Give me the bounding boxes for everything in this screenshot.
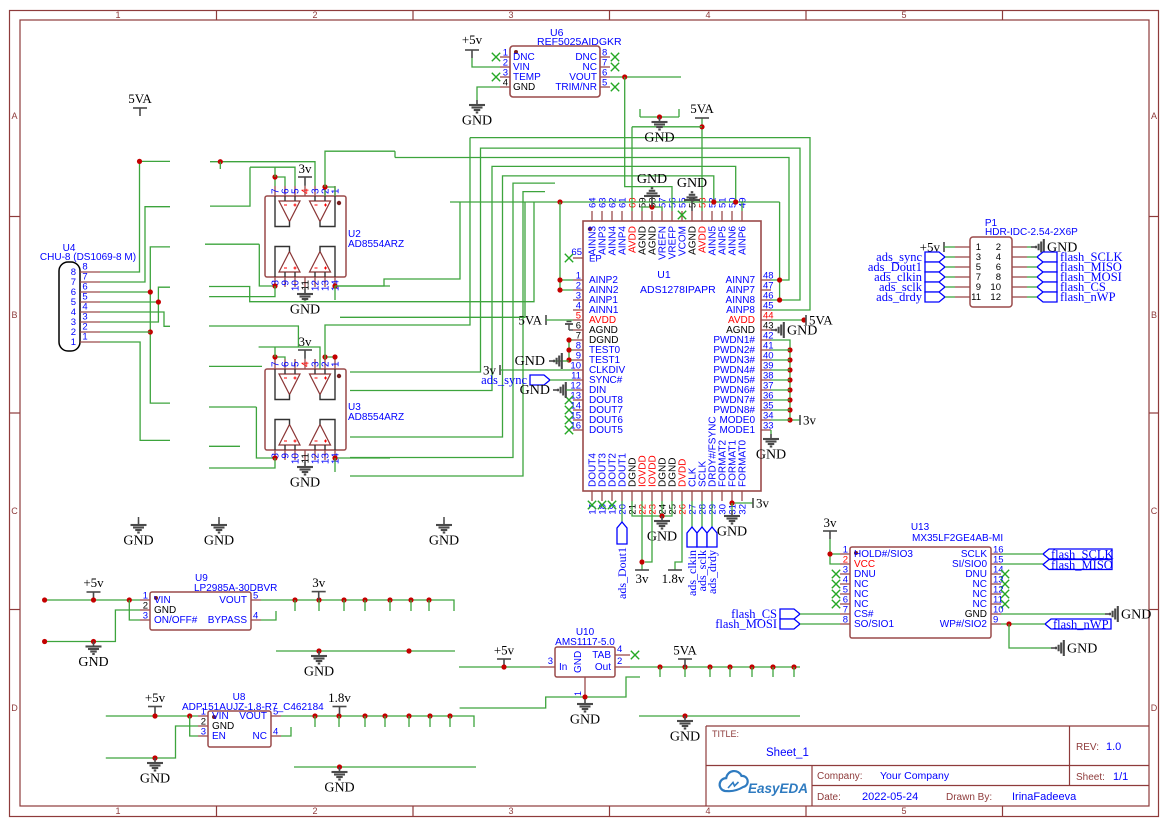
wire bundle line2 to pin46 xyxy=(350,148,800,372)
svg-text:1: 1 xyxy=(331,188,342,194)
svg-text:8: 8 xyxy=(843,615,848,626)
U2 pin 7 (top) xyxy=(274,186,276,196)
U1 pin 4 AINN1 (left) xyxy=(573,309,583,311)
U1 pin 21 DGND (bottom) xyxy=(631,491,633,501)
U1 pin 7 DGND (left) xyxy=(573,339,583,341)
junction dot 3v at U13 pin1 xyxy=(827,551,832,556)
wire segment y167 to U2 pin5 xyxy=(250,167,295,186)
svg-text:3: 3 xyxy=(201,727,206,738)
svg-text:5VA: 5VA xyxy=(518,313,542,328)
wire leg y202 to pin 49 xyxy=(741,202,743,211)
wire staircase riser x150 xyxy=(150,247,170,403)
wire flash_MISO to P1 xyxy=(1027,266,1037,268)
svg-text:1: 1 xyxy=(115,806,120,816)
wire U2 pin8 down xyxy=(209,286,275,297)
U13 pin 10 GND (right) xyxy=(991,613,1001,615)
svg-text:VOUT: VOUT xyxy=(239,711,267,722)
ground symbol left area 1 xyxy=(138,517,140,520)
junction dot pin1 riser top xyxy=(557,199,562,204)
net flag flash_MISO at U13 xyxy=(1043,560,1112,570)
U13 pin 12 NC (right) xyxy=(991,593,1001,595)
junction dot gnd rail at symbol xyxy=(91,639,96,644)
svg-text:5: 5 xyxy=(901,806,906,816)
U3 pin 14 (bottom) xyxy=(334,450,336,460)
svg-text:GND: GND xyxy=(290,303,320,318)
svg-text:GND: GND xyxy=(513,82,535,93)
wire U10 Out 5VA rail xyxy=(630,666,800,668)
junction dot y161 segment xyxy=(218,159,223,164)
wire flash_SCLK to P1 xyxy=(1027,256,1037,258)
wire U3 pin8 down xyxy=(209,458,275,468)
U1 pin 2 AINN2 (left) xyxy=(573,289,583,291)
svg-text:33: 33 xyxy=(763,421,774,432)
U2 pin 5 (top) xyxy=(294,186,296,196)
U2 pin1 marker dot xyxy=(337,201,341,205)
U9 pin 1 VIN (left) xyxy=(140,599,150,601)
U2 pin 11 ground xyxy=(304,287,306,289)
svg-text:1: 1 xyxy=(82,332,87,343)
U4 pin 1 xyxy=(80,341,100,343)
3v rail tap stubs and junction dots xyxy=(292,597,297,602)
junction dot U2 pin14 xyxy=(332,283,337,288)
wire U8 VOUT 1.8v rail xyxy=(281,716,474,727)
U1 pin 58 AGND (top) xyxy=(651,211,653,221)
U2 pin 3 (top) xyxy=(314,186,316,196)
net flag flash_CS at U13 xyxy=(780,609,800,619)
svg-text:B: B xyxy=(1151,310,1157,320)
svg-text:EN: EN xyxy=(212,731,226,742)
junction dot U3 pin2 xyxy=(322,354,327,359)
wire U1 MODE1 pin33 to ground xyxy=(770,430,772,434)
svg-text:EasyEDA: EasyEDA xyxy=(748,781,808,796)
U6 pin 4 GND (left) xyxy=(500,86,510,88)
svg-text:5: 5 xyxy=(273,707,278,718)
junction dot IOVDD 3v xyxy=(639,559,644,564)
U9 pin 5 VOUT (right) xyxy=(251,599,261,601)
svg-text:5: 5 xyxy=(253,591,258,602)
junction dot pin5 to riser xyxy=(156,299,161,304)
wire vertical link pins 48-46 xyxy=(779,202,781,300)
wire 3v to U13 pins 1 and 2 xyxy=(830,539,840,564)
svg-text:Sheet:: Sheet: xyxy=(1076,772,1105,783)
U1 pin 55 VCOM (top) xyxy=(681,211,683,221)
U1 pin 28 SCLK (bottom) xyxy=(701,491,703,501)
ground symbol left area 2 xyxy=(218,517,220,520)
svg-text:Company:: Company: xyxy=(817,771,863,782)
U1 pin 43 AGND (right) xyxy=(761,329,771,331)
svg-text:U1: U1 xyxy=(657,269,671,281)
U3 op-amp triangle xyxy=(279,374,300,395)
junction dot U8 gnd rail at symbol xyxy=(152,755,157,760)
wire U2 pin2 riser to top xyxy=(325,151,395,187)
junction dot top gnd net xyxy=(657,114,662,119)
U1 pin 1 AINP2 (left) xyxy=(573,279,583,281)
svg-text:WP#/SIO2: WP#/SIO2 xyxy=(940,619,988,630)
wire U2 pin8 net xyxy=(259,244,275,287)
ground symbol on mid GND rail xyxy=(318,651,320,656)
U4 pin 5 xyxy=(80,301,100,303)
U2 pin 8 (bottom) xyxy=(274,277,276,287)
U1 pin 44 AVDD (right) xyxy=(761,319,771,321)
svg-text:MX35LF2GE4AB-MI: MX35LF2GE4AB-MI xyxy=(912,533,1003,544)
wire flash_nWP to P1 xyxy=(1027,296,1037,298)
U1 pin 52 AINN5 (top) xyxy=(711,211,713,221)
net flag ads_sync at P1 xyxy=(925,252,945,262)
U8 pin 4 NC (right) xyxy=(271,735,281,737)
U1 pin 40 PWDN3# (right) xyxy=(761,359,771,361)
svg-text:3: 3 xyxy=(143,611,148,622)
U2 pin 9 (bottom) xyxy=(284,277,286,287)
junction dot 5VA wire xyxy=(699,124,704,129)
svg-text:B: B xyxy=(11,310,17,320)
ground symbol top gnd net xyxy=(659,117,661,122)
U2 power pin 3v symbol xyxy=(298,176,312,178)
svg-text:IrinaFadeeva: IrinaFadeeva xyxy=(1012,791,1077,803)
U1 pin 19 DOUT2 (bottom) xyxy=(611,491,613,501)
svg-text:GND: GND xyxy=(290,476,320,491)
svg-text:ads_drdy: ads_drdy xyxy=(876,290,923,304)
U13 pin 1 HOLD#/SIO3 (left) xyxy=(840,553,850,555)
U1 pin 41 PWDN2# (right) xyxy=(761,349,771,351)
junction dot U3 pin14 xyxy=(332,455,337,460)
svg-text:GND: GND xyxy=(1121,608,1151,623)
wire U4 pin5 staircase xyxy=(100,301,158,303)
net flag ads_drdy at P1 xyxy=(925,292,945,302)
svg-text:AD8554ARZ: AD8554ARZ xyxy=(348,412,404,423)
U1 pin1 marker dot xyxy=(588,227,592,231)
wire +5v to P1 pin1 xyxy=(944,246,955,248)
U1 pin 37 PWDN6# (right) xyxy=(761,389,771,391)
U4 pin 4 xyxy=(80,311,100,313)
U13 pin 16 SCLK (right) xyxy=(991,553,1001,555)
U13 pin 6 NC (left) xyxy=(840,603,850,605)
U6 pin 6 VOUT (right) xyxy=(600,76,610,78)
svg-text:3v: 3v xyxy=(312,575,326,590)
svg-text:GND: GND xyxy=(324,781,354,796)
U13 pin 2 VCC (left) xyxy=(840,563,850,565)
ground symbol below pin 33 xyxy=(770,434,772,439)
connector P1 body xyxy=(970,237,1012,307)
U6 pin 5 TRIM/NR (right) xyxy=(600,86,610,88)
svg-text:5VA: 5VA xyxy=(128,91,152,106)
wire U8 GND pin to ground rail xyxy=(106,726,198,758)
U3 pin 11 ground xyxy=(304,460,306,462)
wire pin31 down to ground xyxy=(731,503,733,511)
wire segment y161 to U2 pin3 xyxy=(210,162,315,186)
U1 pin 56 VREFP (top) xyxy=(671,211,673,221)
wire +5v rail to U8 VIN xyxy=(106,715,198,717)
power flag 3v sideways at pin 32 xyxy=(752,498,754,508)
net flag flash_SCLK at P1 xyxy=(1037,252,1057,262)
ground symbol below U9 gnd rail xyxy=(93,642,95,647)
U3 power pin 3v symbol xyxy=(298,349,312,351)
wire U4 pin8 staircase xyxy=(100,161,170,272)
U3 pin 4 (top) xyxy=(304,359,306,369)
U1 pin 27 CLK (bottom) xyxy=(691,491,693,501)
wire U8 EN to +5v rail xyxy=(190,716,198,736)
U13 pin 14 DNU (right) xyxy=(991,573,1001,575)
svg-text:GND: GND xyxy=(204,534,234,549)
U4 pin 6 xyxy=(80,291,100,293)
ground symbol left area 3 xyxy=(443,517,445,520)
wire U3 pin2 riser to line1 xyxy=(325,138,470,359)
title block outline xyxy=(706,725,1149,727)
wire +5v to U10 In xyxy=(459,666,540,668)
net flag flash_CS at P1 xyxy=(1037,282,1057,292)
svg-text:1.8v: 1.8v xyxy=(328,690,351,705)
wire 3v to pin 10 xyxy=(500,369,573,371)
ground symbol right of U13 xyxy=(1105,613,1110,615)
U3 pin 8 (bottom) xyxy=(274,450,276,460)
junction dot U3 pin8 xyxy=(272,455,277,460)
wire pins 7-9 gnd link xyxy=(569,339,573,341)
P1 pin 4 xyxy=(1012,256,1027,258)
P1 pin 5 xyxy=(955,266,970,268)
net flag ads_clkin below U1 xyxy=(691,501,693,527)
net flag flash_MOSI at U13 xyxy=(780,619,800,629)
wire flash_CS to P1 xyxy=(1027,286,1037,288)
U1 pin 31 FORMAT1 (bottom) xyxy=(731,491,733,501)
wire 5VA to pin 5 xyxy=(546,319,573,321)
power flag 3v at CLKDIV pin10 xyxy=(499,365,501,375)
U1 pin 35 PWDN8# (right) xyxy=(761,409,771,411)
wire ads_sync to P1 xyxy=(945,256,955,258)
power flag +5v at U8 xyxy=(148,706,162,708)
svg-text:AINP6: AINP6 xyxy=(738,226,749,255)
wire U2 pins 7-6 link xyxy=(275,177,285,186)
svg-text:GND: GND xyxy=(787,324,817,339)
U13 pin 7 CS# (left) xyxy=(840,613,850,615)
net flag flash_nWP at P1 xyxy=(1037,292,1057,302)
U3 pin 9 (bottom) xyxy=(284,450,286,460)
junction dot pin8 staircase xyxy=(137,159,142,164)
net flag ads_sync at SYNC# pin 11 xyxy=(530,375,550,385)
U1 pin 53 AVDD (top) xyxy=(701,211,703,221)
svg-text:Out: Out xyxy=(595,662,611,673)
U13 pin 11 NC (right) xyxy=(991,603,1001,605)
junction dots right pin links xyxy=(777,277,782,282)
wire U2 pin7 riser up xyxy=(274,167,276,177)
power flag 5VA top left xyxy=(133,107,147,109)
svg-text:2: 2 xyxy=(312,806,317,816)
wire segment into U2 pin8 from left xyxy=(205,243,259,245)
svg-text:TAB: TAB xyxy=(592,650,611,661)
P1 pin 2 xyxy=(1012,246,1027,248)
svg-text:SO/SIO1: SO/SIO1 xyxy=(854,619,894,630)
ic U8 body xyxy=(208,711,271,747)
svg-text:GND: GND xyxy=(429,534,459,549)
svg-text:1: 1 xyxy=(71,337,76,348)
U3 internal wiring (black) xyxy=(275,369,335,450)
svg-text:3: 3 xyxy=(508,806,513,816)
svg-text:5VA: 5VA xyxy=(690,101,714,116)
junction dots PWDN bus xyxy=(787,347,792,352)
power flag +5v at U9 xyxy=(87,591,101,593)
U3 pin 3 (top) xyxy=(314,359,316,369)
wire U3 pin8 net xyxy=(256,407,275,460)
junction dot bottom GND rail xyxy=(337,764,342,769)
P1 pin 6 xyxy=(1012,266,1027,268)
U1 pin 42 PWDN1# (right) xyxy=(761,339,771,341)
ground cluster over U1 pins 59-57 xyxy=(642,207,662,211)
U13 pin 15 SI/SIO0 (right) xyxy=(991,563,1001,565)
junction dots pins 7-9 link xyxy=(566,337,571,342)
ic U13 body xyxy=(850,547,991,638)
U9 pin 4 BYPASS (right) xyxy=(251,619,261,621)
svg-text:GND: GND xyxy=(140,772,170,787)
junction dot at pin 31 xyxy=(729,500,734,505)
U1 pin 32 FORMAT0 (bottom) xyxy=(741,491,743,501)
wire flash_CS to U13 CS# xyxy=(800,613,840,615)
wire U4 pin6 staircase xyxy=(100,291,150,293)
wire U1 pin1 connect xyxy=(560,279,573,281)
svg-text:GND: GND xyxy=(304,665,334,680)
junction dot on AVDD wire xyxy=(801,317,806,322)
U4 pin 8 xyxy=(80,271,100,273)
wire U13 SI/SIO0 to flash_MISO xyxy=(1001,563,1043,565)
U6 pin1 marker dot xyxy=(514,50,518,54)
wire U3 pins 7-6 link xyxy=(275,357,285,359)
svg-text:32: 32 xyxy=(738,504,749,515)
svg-text:11: 11 xyxy=(971,292,981,303)
U1 pin 39 PWDN4# (right) xyxy=(761,369,771,371)
wire gnd to pin link xyxy=(554,360,569,362)
wire U4 pin7 staircase xyxy=(100,207,170,282)
wire U3 feeder upper step xyxy=(209,326,298,347)
junction dot U10 GND pin xyxy=(582,694,587,699)
svg-text:+5v: +5v xyxy=(462,32,483,47)
U1 pin 46 AINN8 (right) xyxy=(761,299,771,301)
svg-text:Sheet_1: Sheet_1 xyxy=(766,747,809,759)
U13 pin 8 SO/SIO1 (left) xyxy=(840,623,850,625)
svg-text:GND: GND xyxy=(520,383,550,398)
svg-text:GND: GND xyxy=(677,176,707,191)
wire ads_sclk to P1 xyxy=(945,286,955,288)
U2 pin 1 (top) xyxy=(334,186,336,196)
U2 pin 12 (bottom) xyxy=(314,277,316,287)
wire +5v to U6 VIN xyxy=(472,58,500,67)
wire ads_drdy to P1 xyxy=(945,296,955,298)
net flag ads_Dout1 at P1 xyxy=(925,262,945,272)
U1 pin 36 PWDN7# (right) xyxy=(761,399,771,401)
U3 pin 2 (top) xyxy=(324,359,326,369)
wire bundle line1 to pin45 xyxy=(470,138,810,310)
P1 pin 7 xyxy=(955,276,970,278)
U1 pin 26 DVDD (bottom) xyxy=(681,491,683,501)
U1 pin 50 AINN6 (top) xyxy=(731,211,733,221)
svg-text:ads_Dout1: ads_Dout1 xyxy=(615,547,629,599)
ic U2 body xyxy=(265,196,346,277)
ic U9 body xyxy=(150,592,251,630)
net flag ads_drdy below U1 xyxy=(711,501,713,527)
junction dot U2 pin7 xyxy=(272,174,277,179)
U1 pin 63 AINP3 (top) xyxy=(601,211,603,221)
U2 op-amp triangle xyxy=(310,201,331,222)
wire U9 ON/OFF# to +5v rail xyxy=(129,600,140,620)
svg-text:3: 3 xyxy=(548,656,553,667)
U8 pin1 marker dot xyxy=(212,715,216,719)
wire U13 WP#/SIO2 to flash_nWP xyxy=(1001,623,1045,625)
svg-text:DOUT5: DOUT5 xyxy=(589,425,623,436)
junction dot U3 pin7 xyxy=(272,354,277,359)
U1 pin 20 DOUT1 (bottom) xyxy=(621,491,623,501)
ground at U1 AGND pin43 xyxy=(771,329,776,331)
svg-text:1: 1 xyxy=(573,691,583,696)
ic U10 body xyxy=(555,647,615,677)
wire U3 pin7 riser xyxy=(274,347,276,357)
U2 pin 2 (top) xyxy=(324,186,326,196)
U1 pin 9 TEST1 (left) xyxy=(573,359,583,361)
svg-text:ADS1278IPAPR: ADS1278IPAPR xyxy=(640,284,716,296)
svg-text:4: 4 xyxy=(705,806,710,816)
junction dot U2 pin8 xyxy=(272,283,277,288)
ground symbol below U6 xyxy=(476,100,478,105)
U3 op-amp triangle xyxy=(310,425,331,446)
svg-text:16: 16 xyxy=(570,421,581,432)
power flag 5VA at pin 44 xyxy=(805,315,807,325)
svg-text:9: 9 xyxy=(993,615,998,626)
U1 pin 33 MODE1 (right) xyxy=(761,429,771,431)
U1 pin 64 AINN3 (top) xyxy=(591,211,593,221)
U8 pin 1 VIN (left) xyxy=(198,715,208,717)
ground symbol below pin 31 xyxy=(731,511,733,516)
net flag ads_sclk below U1 xyxy=(701,501,703,527)
junction dot mid GND rail at symbol xyxy=(316,648,321,653)
ground symbol below flash_nWP xyxy=(1051,647,1056,649)
U3 pin 12 (bottom) xyxy=(314,450,316,460)
ground at P1 pin2 xyxy=(1027,246,1031,248)
U1 pin 45 AINP8 (right) xyxy=(761,309,771,311)
wire top gnd net at y=117 xyxy=(640,116,679,118)
U3 pin 13 (bottom) xyxy=(324,450,326,460)
U9 pin 3 ON/OFF# (left) xyxy=(140,619,150,621)
svg-text:GND: GND xyxy=(1067,642,1097,657)
U1 pin 38 PWDN5# (right) xyxy=(761,379,771,381)
wire bundle line4 xyxy=(350,166,736,390)
wire U13 GND pin to ground xyxy=(1001,613,1105,615)
junction dot +5v drop xyxy=(91,597,96,602)
svg-text:D: D xyxy=(11,703,18,713)
wire flash_MOSI to P1 xyxy=(1027,276,1037,278)
svg-text:LP2985A-30DBVR: LP2985A-30DBVR xyxy=(194,583,277,594)
svg-text:VOUT: VOUT xyxy=(219,595,247,606)
power flag 3v at PWDN bus xyxy=(799,415,801,425)
5VA rail tap stubs and junction dots xyxy=(657,664,662,669)
U13 pin 3 DNU (left) xyxy=(840,573,850,575)
power flag +5v at U10 xyxy=(497,658,511,660)
svg-text:3: 3 xyxy=(508,10,513,20)
svg-text:4: 4 xyxy=(705,10,710,20)
svg-text:BYPASS: BYPASS xyxy=(208,615,248,626)
junction dot U9 vin rail left end xyxy=(42,597,47,602)
U1 pin 29 DRDY#/FSYNC (bottom) xyxy=(711,491,713,501)
U1 pin 49 AINP6 (top) xyxy=(741,211,743,221)
wire bundle line6 xyxy=(350,183,555,457)
svg-text:1/1: 1/1 xyxy=(1113,771,1128,783)
U13 pin1 marker dot xyxy=(854,551,858,555)
U1 pin 23 IOVDD (bottom) xyxy=(651,491,653,501)
junction dot mid GND rail right xyxy=(406,648,411,653)
U1 pin 14 DOUT7 (left) xyxy=(573,409,583,411)
ground symbol on bottom GND rail xyxy=(339,767,341,772)
ground symbol over pin 54 (flipped) xyxy=(691,200,693,211)
svg-text:GND: GND xyxy=(670,730,700,745)
U10 pin 2 Out (right) xyxy=(615,666,630,668)
wire U2 pins 2-1 link xyxy=(325,187,335,196)
svg-text:1.8v: 1.8v xyxy=(662,571,685,586)
svg-text:+5v: +5v xyxy=(145,690,166,705)
svg-text:GND: GND xyxy=(717,525,747,540)
